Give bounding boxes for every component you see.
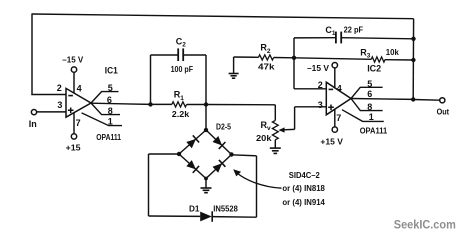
- svg-text:IC1: IC1: [105, 66, 118, 76]
- label +15 (IC1): [66, 142, 81, 152]
- wire: IC2 pin 4 supply: [334, 68, 336, 88]
- wire: IC1 pin 2 input line: [31, 94, 66, 96]
- label R2: [260, 43, 271, 55]
- svg-text:or (4) IN818: or (4) IN818: [282, 183, 325, 193]
- svg-text:4: 4: [77, 83, 82, 93]
- wire: C2 left riser: [151, 55, 179, 104]
- node C junction (R2/C1/R3/pin2): [292, 56, 296, 60]
- resistor R1: [172, 102, 187, 107]
- label IC2: [367, 64, 381, 74]
- label 47k: [258, 61, 275, 71]
- bridge top node junction: [204, 128, 208, 132]
- capacitor C1 plates: [336, 32, 341, 44]
- svg-text:5: 5: [367, 79, 372, 89]
- resistor R3: [371, 57, 385, 62]
- wire: ground corner to R2: [234, 56, 259, 58]
- pin 5 label IC1: [108, 83, 113, 93]
- label IN5528: [213, 204, 238, 214]
- svg-text:D2-5: D2-5: [216, 122, 231, 132]
- svg-text:D1: D1: [189, 204, 200, 214]
- node F output junction: [411, 97, 415, 101]
- svg-text:20k: 20k: [256, 133, 272, 143]
- svg-text:5: 5: [108, 83, 113, 93]
- label SID4C-2: [289, 170, 320, 180]
- terminal: Out: [440, 98, 445, 103]
- wire: C1 left riser: [294, 38, 336, 58]
- diode D3 (bridge top-right): [206, 130, 232, 155]
- pin 5 label IC2: [367, 79, 372, 89]
- diode D5 (bridge bottom-right): [206, 155, 232, 179]
- svg-text:In: In: [29, 119, 37, 129]
- pin 3 label IC1: [57, 100, 62, 110]
- wire: node C down to IC2 pin 2: [294, 58, 327, 89]
- wire: IC2 pin 1 stub: [342, 110, 384, 122]
- resistor R2: [258, 55, 273, 60]
- annotation arrow to diode bridge: [233, 169, 281, 188]
- label OPA111 (IC1): [96, 132, 121, 142]
- svg-text:Out: Out: [437, 106, 450, 116]
- svg-text:–15 V: –15 V: [307, 63, 329, 73]
- wire: C2 right side and riser to node B: [183, 55, 206, 105]
- wire: IC2 pin 6 output line: [351, 98, 413, 101]
- terminal: IC1 +15 supply: [71, 134, 76, 139]
- wire: IC2 pin 8 stub: [351, 99, 383, 111]
- node D junction (C1/right riser): [411, 37, 415, 41]
- pin 1 label IC1: [108, 117, 113, 127]
- svg-text:1: 1: [369, 112, 374, 122]
- wire: bridge left node to bottom rail: [149, 154, 180, 216]
- svg-text:IC2: IC2: [367, 64, 381, 74]
- svg-text:8: 8: [108, 106, 113, 116]
- pin 6 label IC1: [107, 95, 112, 105]
- svg-text:8: 8: [367, 102, 372, 112]
- bridge bottom node junction: [204, 177, 208, 181]
- pin 7 label IC2: [336, 113, 341, 123]
- node A junction (R1/C2 left): [148, 102, 152, 106]
- wire: IC1 pin 1 stub: [82, 113, 122, 126]
- label C2: [176, 36, 187, 48]
- wire: R3 to node E: [385, 59, 413, 61]
- node E junction (R3/right riser): [411, 58, 415, 62]
- label R1: [174, 90, 185, 102]
- label Out: [437, 106, 450, 116]
- label 2.2k: [172, 109, 190, 119]
- label or (4) IN818: [282, 183, 325, 193]
- bridge left node junction: [177, 152, 181, 156]
- pin 8 label IC1: [108, 106, 113, 116]
- op-amp U1 IC1 OPA111 triangle: [66, 88, 91, 117]
- potentiometer Rv body: [272, 120, 278, 139]
- wire: In to IC1 pin 3: [37, 111, 67, 113]
- wire: IC1 pin 4 supply: [73, 72, 75, 93]
- label D2-5: [216, 122, 231, 132]
- wire: R1 to node B: [187, 104, 206, 106]
- label In: [29, 119, 37, 129]
- watermark SeekIC.com: [394, 219, 456, 231]
- pin 1 label IC2: [369, 112, 374, 122]
- svg-text:2: 2: [318, 80, 323, 90]
- wire: pot wiper to IC2 pin 3: [278, 107, 326, 133]
- svg-text:47k: 47k: [258, 61, 275, 71]
- label 10k: [386, 47, 399, 57]
- svg-text:4: 4: [337, 84, 342, 94]
- label 22 pF: [344, 24, 364, 34]
- svg-text:+15: +15: [66, 142, 81, 152]
- svg-text:–15 V: –15 V: [62, 55, 83, 65]
- terminal: IC1 -15V supply: [71, 67, 76, 72]
- svg-text:1: 1: [108, 117, 113, 127]
- svg-text:or (4) IN914: or (4) IN914: [282, 197, 325, 207]
- diode D4 (bridge bottom-left): [179, 154, 206, 179]
- diode D2 (bridge top-left): [179, 130, 206, 154]
- wire: C1 right side to node D: [341, 38, 413, 39]
- label OPA111 (IC2): [360, 126, 388, 136]
- wire: node B down to bridge top node: [205, 105, 207, 131]
- svg-text:6: 6: [367, 89, 372, 99]
- bridge right node junction: [229, 152, 233, 156]
- terminal: IC2 -15V supply: [332, 62, 337, 67]
- wire: node C to R3: [294, 58, 371, 60]
- op-amp U2 IC2 OPA111 triangle: [326, 82, 351, 115]
- svg-text:SID4C–2: SID4C–2: [289, 170, 320, 180]
- diode D1: [200, 211, 212, 222]
- ground (pot Rv): [270, 148, 281, 153]
- label D1: [189, 204, 200, 214]
- wire: node B to pot Rv: [206, 105, 275, 121]
- label Rv: [261, 120, 272, 132]
- label IC1: [105, 66, 118, 76]
- wire: R2 to node C: [274, 57, 294, 59]
- ground (R2 left): [229, 74, 239, 79]
- pin 7 label IC1: [76, 118, 81, 128]
- svg-text:7: 7: [336, 113, 341, 123]
- wire: node A to R1: [151, 103, 172, 105]
- wire: IC2 pin 5 stub: [351, 87, 383, 98]
- svg-text:3: 3: [318, 100, 323, 110]
- svg-text:OPA111: OPA111: [96, 132, 121, 142]
- label 20k: [256, 133, 272, 143]
- wire: output junction to Out terminal: [413, 99, 439, 102]
- wire: right feedback riser: [412, 19, 414, 100]
- wire: bottom rail right segment and riser to bridge right node: [212, 155, 256, 217]
- terminal: IC2 +15V supply: [332, 127, 337, 132]
- svg-text:OPA111: OPA111: [360, 126, 388, 136]
- pin 4 label IC2: [337, 84, 342, 94]
- wire: IC1 pin 8 stub: [91, 103, 120, 115]
- svg-text:22 pF: 22 pF: [344, 24, 364, 34]
- label 100 pF: [171, 64, 194, 74]
- pin 2 label IC2: [318, 80, 323, 90]
- svg-text:100 pF: 100 pF: [171, 64, 194, 74]
- svg-text:SeekIC.com: SeekIC.com: [394, 219, 456, 231]
- label +15 V (IC2): [320, 136, 343, 146]
- capacitor C2 plates: [178, 48, 183, 61]
- wire: pot bottom to ground: [274, 140, 276, 148]
- label -15 V (IC1): [62, 55, 83, 65]
- pin 2 label IC1: [57, 83, 62, 93]
- pin 3 label IC2: [318, 100, 323, 110]
- wire: bottom rail left segment: [149, 215, 201, 217]
- svg-text:2: 2: [57, 83, 62, 93]
- pin 8 label IC2: [367, 102, 372, 112]
- wire: IC1 pin 7 supply: [73, 113, 75, 134]
- svg-text:2.2k: 2.2k: [172, 109, 190, 119]
- ground (bridge bottom): [201, 188, 212, 193]
- label C1: [325, 25, 336, 37]
- wire: left feedback riser: [31, 14, 33, 95]
- wire: IC2 pin 7 supply: [334, 109, 336, 127]
- wire: R2 left end to ground: [233, 57, 235, 73]
- svg-text:IN5528: IN5528: [213, 204, 238, 214]
- svg-text:7: 7: [76, 118, 81, 128]
- label -15 V (IC2): [307, 63, 329, 73]
- svg-text:10k: 10k: [386, 47, 399, 57]
- wire: top feedback rail from IC2 output back to IC1 pin 2: [32, 14, 414, 19]
- pin 4 label IC1: [77, 83, 82, 93]
- wire: IC1 pin 6 output to node A: [91, 103, 151, 104]
- wire: bridge bottom node stub to ground: [205, 179, 207, 188]
- svg-text:+15 V: +15 V: [320, 136, 343, 146]
- label or (4) IN914: [282, 197, 325, 207]
- pin 6 label IC2: [367, 89, 372, 99]
- terminal: In: [31, 110, 36, 115]
- label R3: [360, 47, 371, 59]
- node B junction (R1 right / bridge top): [204, 102, 208, 106]
- svg-text:3: 3: [57, 100, 62, 110]
- wire: IC1 pin 5 stub: [91, 92, 119, 103]
